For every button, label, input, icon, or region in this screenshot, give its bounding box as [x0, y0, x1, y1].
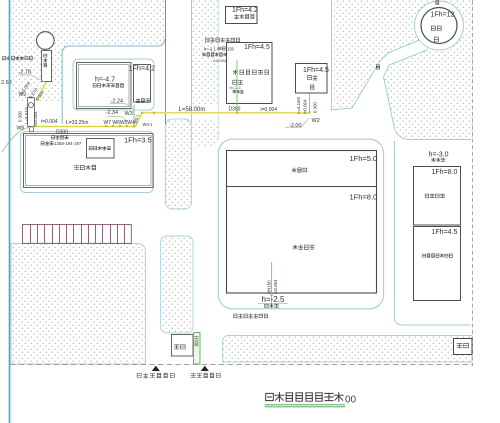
- label road top: [436, 1, 439, 5]
- svg-text:1Fh=4.2: 1Fh=4.2: [129, 64, 156, 73]
- label distribution room: [136, 99, 150, 103]
- plot around fire-pool building: [73, 59, 154, 110]
- svg-text:1Fh=12: 1Fh=12: [431, 12, 455, 19]
- right building gasification workshop: [414, 167, 461, 226]
- building backup power house: [226, 7, 258, 24]
- label weighbridge: [194, 337, 198, 346]
- label tank char: [434, 37, 438, 41]
- title green underline: [265, 405, 346, 407]
- label reservoir: [431, 158, 445, 162]
- label odor suction note left: [3, 56, 33, 60]
- label odor suction note bottom: [234, 314, 268, 318]
- label kitchen waste treatment: [233, 70, 269, 75]
- label gasification workshop: [425, 194, 444, 198]
- label sump pit: [233, 90, 244, 93]
- page edge cyan line: [9, 0, 11, 423]
- gas tank road loop: [415, 1, 464, 50]
- svg-text:W7 W6W5W4: W7 W6W5W4: [104, 120, 136, 126]
- svg-text:-2.34: -2.34: [106, 110, 119, 116]
- svg-text:150: 150: [227, 47, 235, 52]
- building power distribution room: [134, 65, 151, 103]
- svg-text:1Fh=5.0: 1Fh=5.0: [350, 154, 378, 163]
- svg-text:i=0.004: i=0.004: [273, 279, 278, 294]
- plot boundary east of boiler: [331, 0, 333, 110]
- central building compost and sorting: [227, 151, 377, 294]
- right building combustible waste garage: [414, 227, 461, 301]
- label comprehensive house: [74, 165, 95, 170]
- plot around comprehensive building: [20, 132, 153, 193]
- green drain kitchen: [236, 60, 238, 113]
- leader -2.00: [285, 118, 309, 128]
- svg-text:-2.00: -2.00: [289, 123, 302, 129]
- label combustible waste garage: [423, 254, 453, 258]
- entrance triangle factory area: [201, 366, 209, 371]
- svg-text:D300: D300: [56, 130, 68, 136]
- label oil pool note: [52, 136, 69, 140]
- svg-text:i=0.004: i=0.004: [33, 111, 38, 126]
- label house char: [311, 85, 314, 90]
- green drain sewage pool: [271, 262, 273, 307]
- svg-text:1Fh=3.5: 1Fh=3.5: [124, 136, 152, 145]
- pump station small rect: [28, 98, 35, 127]
- label fire water tank room: [89, 146, 111, 150]
- svg-text:-2.78: -2.78: [19, 70, 32, 76]
- cluster outline top-left: [62, 39, 164, 124]
- svg-text:W4-1: W4-1: [143, 122, 154, 127]
- road stem east edge: [384, 50, 472, 140]
- svg-text:L=3.51m: L=3.51m: [24, 106, 29, 124]
- building comprehensive house: [24, 134, 154, 188]
- svg-text:i=0.004: i=0.004: [213, 58, 227, 63]
- svg-text:L=4.16m: L=4.16m: [296, 96, 301, 114]
- green west curve: [2, 127, 36, 153]
- label gatehouse right: [457, 343, 469, 347]
- svg-text:1Fh=4.5: 1Fh=4.5: [432, 229, 458, 236]
- sewage pipe northwest branch: [36, 83, 46, 102]
- road edge west of north road: [165, 0, 167, 124]
- label fire pool pump house: [93, 84, 123, 88]
- ground stipple strip right of north road lower: [192, 120, 218, 146]
- central plot road loop: [218, 139, 383, 309]
- svg-text:h=-3.0: h=-3.0: [429, 152, 449, 159]
- svg-text:1Fh=4.2: 1Fh=4.2: [232, 7, 258, 14]
- svg-text:1Fh=8.0: 1Fh=8.0: [432, 169, 458, 176]
- svg-text:1258-194-197: 1258-194-197: [54, 141, 82, 146]
- svg-text:1Fh=4.5: 1Fh=4.5: [303, 67, 329, 74]
- svg-text:W3: W3: [125, 111, 133, 117]
- ground stipple bottom strip: [223, 336, 473, 363]
- svg-text:h=-4.7: h=-4.7: [95, 77, 115, 84]
- label living area entrance: [137, 373, 174, 378]
- svg-text:00: 00: [345, 395, 357, 406]
- svg-text:h=-2.1: h=-2.1: [204, 47, 217, 52]
- building boiler house: [296, 64, 328, 94]
- dashed site boundary east: [472, 0, 474, 366]
- svg-text:W8: W8: [17, 126, 25, 132]
- road stem to gas tank white corridor: [330, 38, 427, 141]
- svg-text:0.300: 0.300: [313, 101, 318, 113]
- fire water tank room: [87, 139, 115, 159]
- parking comb row: [23, 224, 132, 243]
- svg-text:h=-2.1: h=-2.1: [230, 85, 242, 90]
- sewage pipe main run: [31, 113, 310, 127]
- pump station narrow building: [42, 51, 52, 82]
- label gatehouse: [174, 345, 185, 349]
- label workshop: [233, 80, 243, 84]
- ground stipple median block below pipe: [165, 119, 191, 209]
- label sewage pool: [265, 304, 279, 308]
- ground stipple bottom-left block: [11, 244, 146, 365]
- label odor suction note top: [206, 38, 240, 42]
- road stem west edge: [330, 38, 424, 110]
- pump tank circle top-left: [37, 32, 55, 50]
- svg-text:0.300: 0.300: [18, 110, 23, 122]
- svg-text:1Fh=4.5: 1Fh=4.5: [244, 44, 270, 51]
- label sorting workshop: [293, 245, 314, 250]
- ground stipple top-left block: [11, 0, 165, 101]
- svg-text:i=0.004: i=0.004: [303, 99, 308, 114]
- manholes: [105, 112, 310, 296]
- label buried oil pool: [202, 53, 227, 57]
- leader -2.24: [110, 104, 134, 109]
- sewage pipe main run halo: [31, 113, 310, 127]
- ground stipple strip right of north road upper: [192, 0, 218, 106]
- gatehouse right: [454, 339, 473, 355]
- leader -2.78: [18, 75, 46, 83]
- label factory entrance: [191, 373, 220, 378]
- gatehouse middle: [172, 335, 194, 357]
- building kitchen waste treatment workshop: [227, 43, 273, 104]
- label backup power house: [234, 14, 254, 18]
- label gas storage: [431, 26, 441, 30]
- svg-text:i=0.004: i=0.004: [261, 107, 278, 113]
- gas tank: [421, 8, 457, 44]
- dashed site boundary south: [10, 364, 473, 366]
- svg-text:-2.24: -2.24: [111, 99, 124, 105]
- green drain boiler: [309, 94, 311, 113]
- svg-text:W2: W2: [312, 118, 320, 124]
- road edge east of north road: [191, 0, 193, 123]
- note text: [41, 142, 53, 146]
- svg-text:i=0.004: i=0.004: [41, 119, 58, 125]
- svg-text:1Fh=8.0: 1Fh=8.0: [350, 193, 378, 202]
- svg-text:D300: D300: [229, 107, 241, 113]
- ground stipple top-right area: [334, 0, 473, 141]
- svg-text:DN150: DN150: [267, 280, 272, 294]
- title sewage pipeline general plan: [266, 393, 344, 402]
- svg-text:L=33.25m: L=33.25m: [66, 120, 88, 126]
- building fire water pool and pump house: [77, 63, 132, 109]
- right plot: [394, 140, 472, 325]
- road edge x218: [217, 0, 219, 139]
- label inner diameter: [218, 47, 225, 50]
- weighbridge: [194, 333, 201, 365]
- label compost: [292, 168, 307, 173]
- entrance triangle living area: [152, 366, 160, 371]
- ground stipple median island with gatehouse: [161, 236, 193, 333]
- label road stem: [376, 65, 379, 69]
- label boiler: [307, 75, 317, 80]
- svg-text:h=-2.5: h=-2.5: [262, 295, 285, 304]
- leader -2.34: [107, 117, 128, 122]
- leader h=-2.5: [258, 303, 288, 305]
- pump station vertical label: [43, 54, 47, 67]
- small manhole box: [30, 127, 34, 132]
- svg-text:L=58.00m: L=58.00m: [179, 107, 206, 113]
- green drain W3: [133, 105, 135, 126]
